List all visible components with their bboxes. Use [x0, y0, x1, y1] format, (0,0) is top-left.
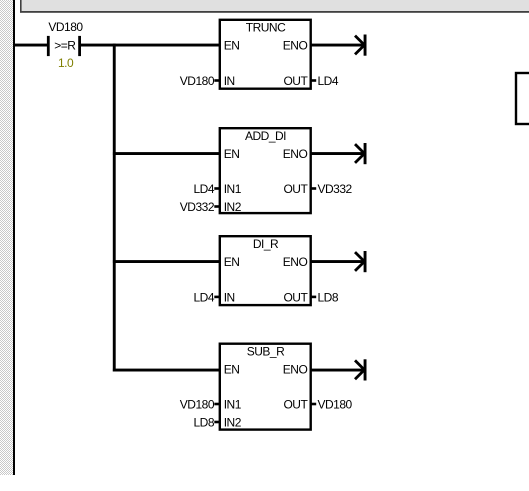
operand VD180 at SUB_R IN1: [180, 398, 215, 412]
operand VD332 at ADD_DI IN2: [180, 200, 215, 214]
power rail (left bus bar): [13, 0, 15, 475]
pin tick IN (DI_R): [214, 296, 219, 299]
svg-text:LD4: LD4: [193, 290, 214, 304]
svg-text:ENO: ENO: [283, 147, 308, 161]
svg-text:LD4: LD4: [318, 74, 339, 88]
svg-text:VD180: VD180: [318, 398, 353, 412]
svg-text:EN: EN: [224, 39, 240, 53]
open arrow rung 4: [355, 359, 367, 380]
svg-text:LD8: LD8: [318, 290, 339, 304]
constant 1.0: [58, 56, 74, 70]
svg-text:LD4: LD4: [193, 182, 214, 196]
operand LD8 at SUB_R IN2: [193, 416, 214, 430]
pin tick OUT (DI_R): [311, 296, 316, 299]
svg-text:OUT: OUT: [283, 74, 308, 88]
pin tick IN1 (ADD_DI): [214, 187, 219, 190]
svg-text:VD180: VD180: [48, 20, 83, 34]
open arrow rung 1: [355, 35, 367, 56]
open arrow rung 2: [355, 143, 367, 164]
svg-text:EN: EN: [224, 255, 240, 269]
svg-text:VD332: VD332: [180, 200, 215, 214]
svg-text:EN: EN: [224, 147, 240, 161]
operand LD4 at TRUNC OUT: [318, 74, 339, 88]
svg-text:OUT: OUT: [283, 182, 308, 196]
svg-text:VD180: VD180: [180, 74, 215, 88]
pin tick IN (TRUNC): [214, 79, 219, 82]
svg-text:EN: EN: [224, 363, 240, 377]
svg-text:IN2: IN2: [224, 416, 242, 430]
pin tick OUT (TRUNC): [311, 79, 316, 82]
pin tick IN2 (SUB_R): [214, 421, 219, 424]
wire TRUNC ENO to arrow: [311, 44, 364, 47]
pin tick OUT (ADD_DI): [311, 187, 316, 190]
svg-text:ENO: ENO: [283, 39, 308, 53]
pin tick IN2 (ADD_DI): [214, 205, 219, 208]
svg-text:OUT: OUT: [283, 290, 308, 304]
svg-text:IN: IN: [224, 290, 235, 304]
contact VD180 comparison >=R: [47, 20, 84, 56]
wire rail to contact: [14, 44, 48, 47]
svg-text:OUT: OUT: [283, 398, 308, 412]
wire contact to TRUNC EN: [81, 44, 220, 47]
svg-text:LD8: LD8: [193, 416, 214, 430]
operand VD180 at SUB_R OUT: [318, 398, 353, 412]
svg-text:ENO: ENO: [283, 363, 308, 377]
svg-text:IN2: IN2: [224, 200, 242, 214]
wire ADD_DI ENO to arrow: [311, 152, 364, 155]
svg-text:ENO: ENO: [283, 255, 308, 269]
box SUB_R: [220, 344, 311, 430]
operand VD332 at ADD_DI OUT: [318, 182, 353, 196]
operand LD8 at DI_R OUT: [318, 290, 339, 304]
svg-text:>=R: >=R: [54, 38, 76, 52]
svg-text:IN1: IN1: [224, 182, 242, 196]
svg-text:1.0: 1.0: [58, 56, 74, 70]
pin tick OUT (SUB_R): [311, 403, 316, 406]
operand VD180 at TRUNC IN: [180, 74, 215, 88]
svg-text:VD180: VD180: [180, 398, 215, 412]
partial box at right edge: [516, 73, 529, 124]
wire DI_R ENO to arrow: [311, 260, 364, 263]
box ADD_DI: [220, 128, 311, 214]
open arrow rung 3: [355, 251, 367, 272]
wire branch to ADD_DI EN: [113, 152, 220, 155]
wire branch to DI_R EN: [113, 260, 220, 263]
wire branch vertical: [113, 44, 116, 372]
svg-text:IN1: IN1: [224, 398, 242, 412]
svg-text:VD332: VD332: [318, 182, 353, 196]
svg-text:IN: IN: [224, 74, 235, 88]
svg-text:TRUNC: TRUNC: [246, 20, 286, 34]
svg-text:SUB_R: SUB_R: [247, 344, 285, 358]
operand LD4 at ADD_DI IN1: [193, 182, 214, 196]
box DI_R: [220, 236, 311, 305]
svg-text:DI_R: DI_R: [253, 237, 279, 251]
wire SUB_R ENO to arrow: [311, 369, 364, 372]
operand LD4 at DI_R IN: [193, 290, 214, 304]
wire branch to SUB_R EN: [113, 369, 220, 372]
box TRUNC: [220, 20, 311, 89]
svg-text:ADD_DI: ADD_DI: [245, 129, 286, 143]
network header box (bottom edge of comment bar above): [20, 0, 529, 13]
pin tick IN1 (SUB_R): [214, 403, 219, 406]
left margin dither strip: [0, 0, 13, 475]
